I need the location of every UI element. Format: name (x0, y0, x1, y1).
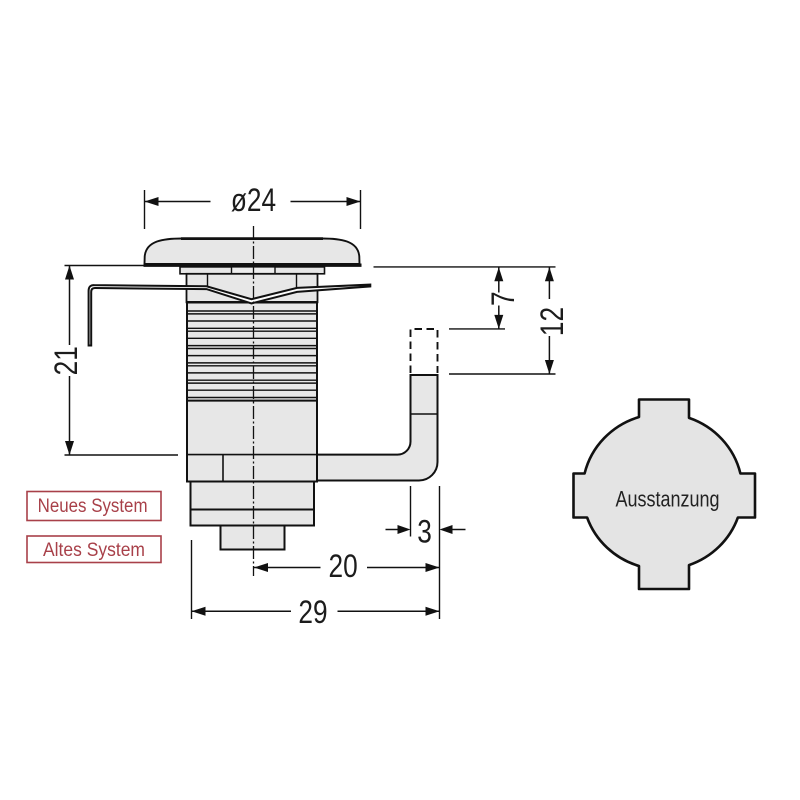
svg-text:Altes System: Altes System (43, 538, 145, 560)
dimension 12 (449, 267, 571, 374)
svg-text:3: 3 (417, 515, 432, 550)
spring clip (89, 285, 371, 346)
centerline (253, 226, 255, 576)
dimension 29 (192, 540, 440, 631)
thread lines (187, 303, 317, 398)
shared top extension line (cap underside) (374, 266, 556, 268)
svg-text:Neues System: Neues System (38, 495, 148, 516)
dimension 21 (50, 266, 180, 456)
svg-text:7: 7 (487, 291, 522, 306)
svg-text:12: 12 (536, 307, 571, 336)
label Neues System (27, 492, 161, 521)
svg-text:21: 21 (50, 346, 85, 375)
dimension 20 (254, 550, 440, 585)
svg-text:Ausstanzung: Ausstanzung (616, 488, 720, 512)
svg-text:29: 29 (298, 596, 327, 631)
svg-text:20: 20 (329, 550, 358, 585)
thread end line (187, 400, 317, 402)
dimension 3 (386, 486, 466, 619)
cam arm (hook) (317, 375, 438, 481)
dimension o24 (145, 184, 361, 229)
dashed cam raised position (411, 329, 438, 373)
body slot detail (187, 455, 317, 481)
neck (187, 274, 318, 303)
neck flange (180, 267, 325, 274)
spindle (221, 526, 285, 550)
dimension 7 (449, 267, 522, 329)
svg-text:ø24: ø24 (231, 184, 276, 219)
punch-out (Ausstanzung) shape (574, 400, 756, 590)
threaded body (187, 302, 317, 482)
cam joint line (411, 413, 438, 415)
step B (191, 510, 315, 526)
step A (191, 482, 315, 510)
label Altes System (27, 536, 161, 563)
cap (lock head) (144, 239, 362, 266)
